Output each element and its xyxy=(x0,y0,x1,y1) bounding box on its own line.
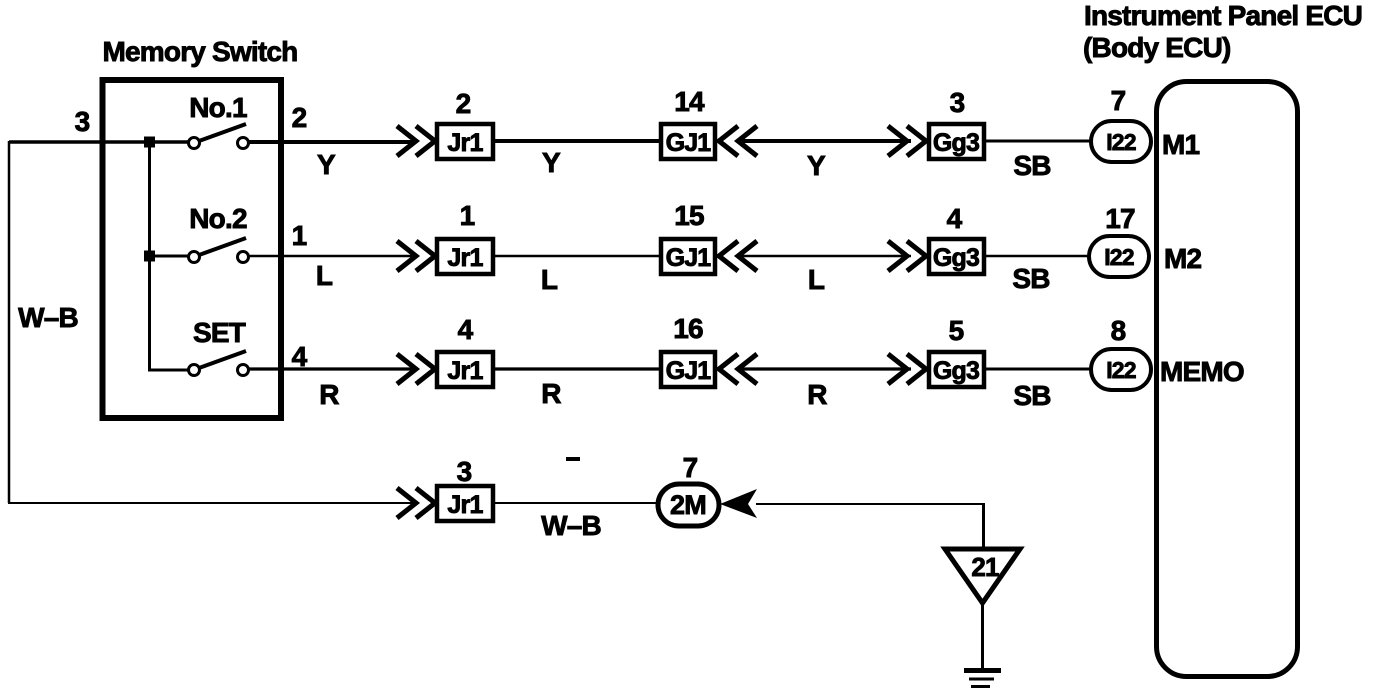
memory switch enclosure box xyxy=(103,80,282,418)
wire row2 switch to junction Jr1 xyxy=(249,255,413,258)
connector arrows >> bottom (into Jr1) xyxy=(397,488,435,518)
svg-text:Gg3: Gg3 xyxy=(933,357,979,385)
svg-text:Jr1: Jr1 xyxy=(447,491,483,519)
svg-text:No.2: No.2 xyxy=(189,203,247,234)
svg-text:1: 1 xyxy=(460,200,475,231)
svg-text:7: 7 xyxy=(683,452,698,483)
connector arrows >> row3 (into Jr1) xyxy=(397,354,435,384)
svg-text:17: 17 xyxy=(1105,203,1135,234)
svg-text:L: L xyxy=(808,264,825,295)
svg-text:M1: M1 xyxy=(1162,129,1200,160)
wire row2 Gg3 to I22 xyxy=(986,255,1089,258)
switch SET right contact xyxy=(238,365,249,376)
svg-text:GJ1: GJ1 xyxy=(666,244,712,272)
wire row3 GJ1 to Gg3 xyxy=(740,367,911,370)
svg-text:R: R xyxy=(319,379,339,410)
svg-text:MEMO: MEMO xyxy=(1160,356,1244,387)
svg-text:Jr1: Jr1 xyxy=(447,244,483,272)
junction dot row1 xyxy=(144,137,155,148)
svg-text:Y: Y xyxy=(317,149,336,180)
svg-text:Jr1: Jr1 xyxy=(447,357,483,385)
switch No.2 right contact xyxy=(238,252,249,263)
svg-text:I22: I22 xyxy=(1104,244,1134,270)
svg-text:SET: SET xyxy=(193,317,246,348)
svg-text:W–B: W–B xyxy=(18,302,78,333)
svg-text:Y: Y xyxy=(807,150,826,181)
arrowhead after 2M xyxy=(720,489,757,518)
connector arrows >> row2 (into Gg3) xyxy=(888,241,926,271)
svg-text:GJ1: GJ1 xyxy=(666,357,712,385)
switch No.1 left contact xyxy=(189,138,200,149)
svg-text:4: 4 xyxy=(458,314,474,345)
switch No.2 left contact xyxy=(189,252,200,263)
wire W-B bottom horizontal xyxy=(8,502,413,504)
connector arrows >> row1 (into Jr1) xyxy=(397,126,435,156)
svg-text:Memory Switch: Memory Switch xyxy=(103,36,298,67)
svg-text:3: 3 xyxy=(950,87,965,118)
svg-text:4: 4 xyxy=(947,203,963,234)
connector arrows << row2 (out of GJ1) xyxy=(719,241,757,271)
svg-text:2: 2 xyxy=(456,88,471,119)
svg-text:SB: SB xyxy=(1013,150,1050,181)
svg-text:14: 14 xyxy=(674,86,705,117)
switch SET left contact xyxy=(189,365,200,376)
wire row2 GJ1 to Gg3 xyxy=(740,255,911,258)
connector arrows >> row2 (into Jr1) xyxy=(397,241,435,271)
svg-text:I22: I22 xyxy=(1106,129,1136,155)
svg-text:SB: SB xyxy=(1012,263,1049,294)
wire 2M to ground drop xyxy=(756,503,985,505)
junction dot row2 xyxy=(144,251,155,262)
svg-text:M2: M2 xyxy=(1164,243,1202,274)
wire W-B left horizontal into switch xyxy=(9,140,189,144)
svg-text:Jr1: Jr1 xyxy=(447,129,483,157)
switch No.1 blade xyxy=(199,124,246,141)
svg-text:3: 3 xyxy=(75,106,90,137)
svg-text:2M: 2M xyxy=(670,490,706,520)
wire row2 dot to contact xyxy=(150,255,189,258)
svg-text:L: L xyxy=(541,264,558,295)
svg-text:W–B: W–B xyxy=(541,510,601,541)
svg-text:Gg3: Gg3 xyxy=(933,244,979,272)
connector arrows << row1 (out of GJ1) xyxy=(719,126,757,156)
stray scan mark xyxy=(566,457,580,461)
svg-text:2: 2 xyxy=(292,102,307,133)
svg-text:1: 1 xyxy=(292,220,307,251)
svg-text:SB: SB xyxy=(1013,380,1050,411)
connector arrows >> row1 (into Gg3) xyxy=(888,126,926,156)
svg-text:3: 3 xyxy=(457,456,472,487)
switch SET blade xyxy=(199,351,246,368)
wire W-B left vertical xyxy=(8,141,11,503)
wire row3 Jr1 to GJ1 xyxy=(495,367,662,370)
wire row1 Gg3 to I22 xyxy=(986,140,1091,143)
svg-text:R: R xyxy=(541,378,561,409)
wire row3 Gg3 to I22 xyxy=(986,368,1091,371)
wire row1 GJ1 to Gg3 xyxy=(740,139,911,143)
wire row2 Jr1 to GJ1 xyxy=(495,255,662,258)
svg-text:Instrument Panel ECU: Instrument Panel ECU xyxy=(1084,0,1362,31)
svg-text:Gg3: Gg3 xyxy=(933,129,979,157)
switch No.1 right contact xyxy=(238,138,249,149)
wire vertical down to ground triangle 21 xyxy=(982,503,985,549)
ground symbol xyxy=(964,668,1001,673)
wire row3 switch to junction Jr1 xyxy=(249,367,413,370)
svg-text:15: 15 xyxy=(674,200,704,231)
svg-text:L: L xyxy=(316,260,333,291)
svg-text:4: 4 xyxy=(292,341,308,372)
wire row1 switch to junction Jr1 xyxy=(249,140,413,144)
switch No.2 blade xyxy=(199,238,246,255)
svg-text:7: 7 xyxy=(1111,85,1126,116)
bus wire vertical inside switch xyxy=(148,142,151,370)
connector arrows >> row3 (into Gg3) xyxy=(888,354,926,384)
svg-text:8: 8 xyxy=(1111,315,1126,346)
wire row3 bus corner to contact xyxy=(148,369,189,372)
svg-text:(Body ECU): (Body ECU) xyxy=(1083,32,1231,63)
svg-text:No.1: No.1 xyxy=(189,92,247,123)
ground connector triangle 21 xyxy=(945,549,1020,603)
svg-text:Y: Y xyxy=(542,147,561,178)
wire row1 Jr1 to GJ1 xyxy=(495,139,662,143)
wire bottom Jr1 to 2M xyxy=(495,502,658,504)
wire triangle to ground xyxy=(981,602,984,671)
svg-text:GJ1: GJ1 xyxy=(666,129,712,157)
ECU body rounded box xyxy=(1157,82,1298,677)
connector arrows << row3 (out of GJ1) xyxy=(719,354,757,384)
svg-text:5: 5 xyxy=(949,315,964,346)
svg-text:16: 16 xyxy=(673,313,703,344)
svg-text:21: 21 xyxy=(971,552,999,582)
svg-text:R: R xyxy=(807,379,827,410)
svg-text:I22: I22 xyxy=(1106,357,1136,383)
